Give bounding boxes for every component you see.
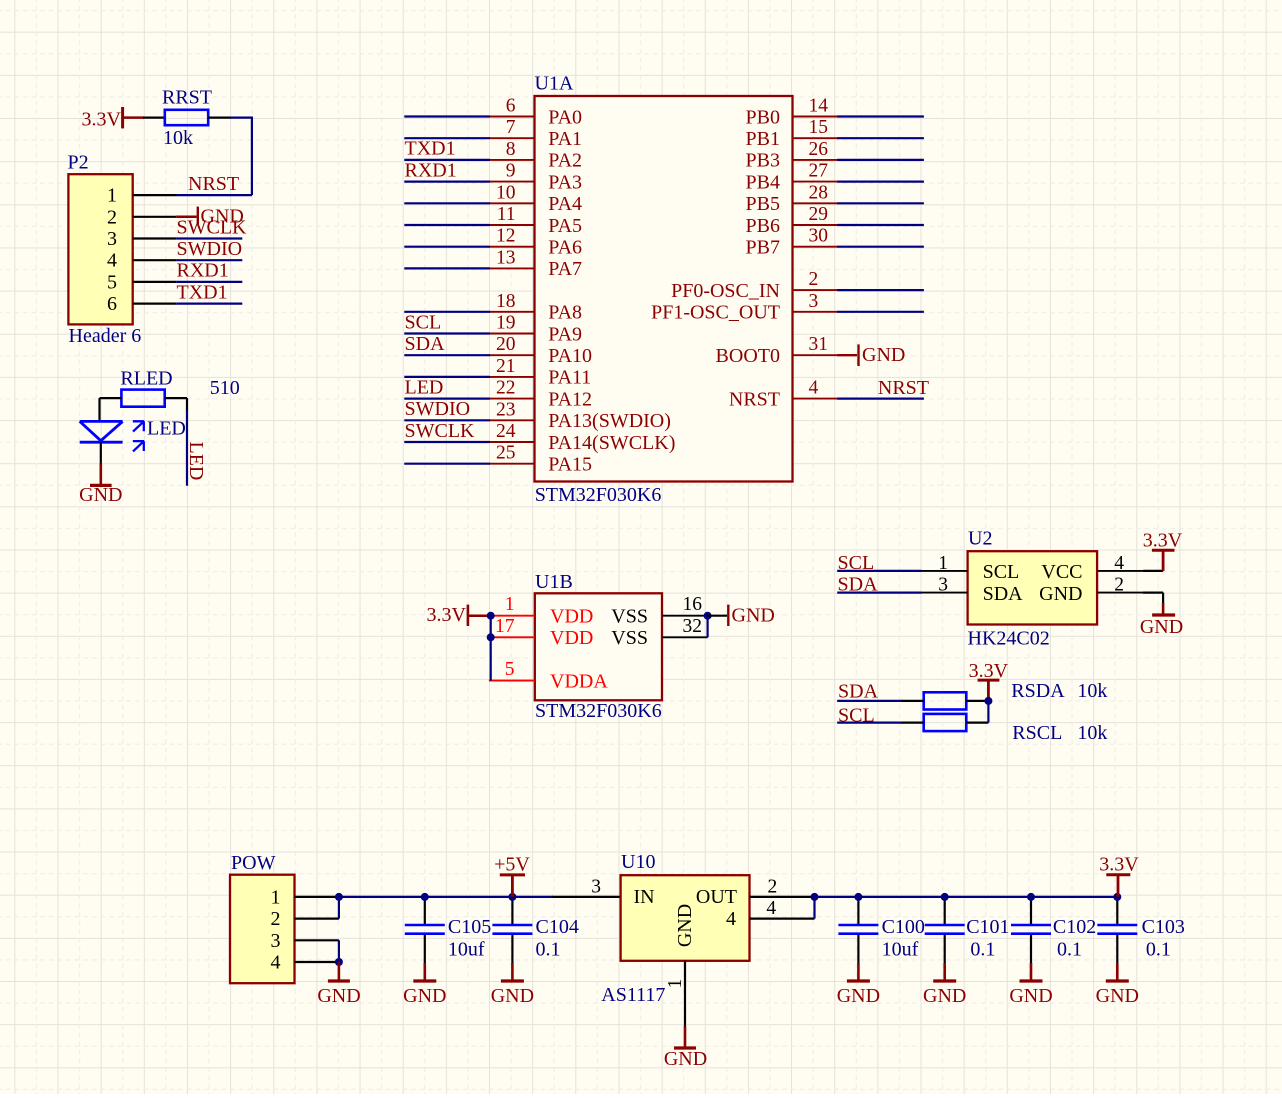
svg-text:SCL: SCL: [983, 561, 1020, 583]
U1A pin 20 PA10: [489, 334, 592, 367]
svg-text:PA11: PA11: [548, 367, 591, 389]
wire 3.3V to RRST: [143, 116, 165, 118]
junction at C105: [421, 893, 429, 901]
svg-text:17: 17: [495, 616, 515, 637]
svg-text:VCC: VCC: [1041, 561, 1082, 583]
svg-text:510: 510: [210, 377, 240, 399]
P2 pin 5 stub and wire RXD1: [133, 281, 243, 283]
svg-text:SWCLK: SWCLK: [405, 420, 476, 442]
U1A pin 30 PB7: [746, 226, 839, 259]
wire U2 GND down: [1143, 593, 1163, 604]
resistor RRST 10k: [162, 87, 212, 150]
svg-text:1: 1: [938, 553, 948, 574]
junction at POW pin 1: [335, 893, 343, 901]
svg-text:BOOT0: BOOT0: [716, 345, 780, 367]
svg-text:3: 3: [938, 575, 948, 596]
wire at U1A pin 23: [404, 419, 490, 421]
U1A pin 10 PA4: [489, 182, 582, 215]
capacitor C102 0.1: [1011, 897, 1096, 964]
svg-text:GND: GND: [1009, 985, 1052, 1007]
svg-text:3.3V: 3.3V: [82, 108, 122, 130]
svg-text:AS1117: AS1117: [601, 984, 665, 1006]
svg-text:PB5: PB5: [746, 193, 780, 215]
wire VSS 32 up to VSS 16: [706, 616, 708, 638]
svg-text:RSDA: RSDA: [1011, 680, 1065, 702]
svg-text:28: 28: [809, 182, 829, 203]
ground GND below U10: [664, 1026, 707, 1070]
svg-text:1: 1: [505, 594, 515, 615]
svg-text:3.3V: 3.3V: [1099, 854, 1139, 876]
svg-text:20: 20: [496, 334, 516, 355]
svg-text:PB4: PB4: [746, 171, 780, 193]
svg-text:4: 4: [766, 898, 776, 919]
svg-text:PB7: PB7: [746, 237, 780, 259]
svg-text:31: 31: [809, 334, 829, 355]
capacitor C105 10uf: [405, 897, 491, 964]
POW pin 4 stub: [295, 961, 339, 963]
svg-text:PA6: PA6: [548, 237, 582, 259]
svg-text:SCL: SCL: [838, 552, 875, 574]
svg-text:2: 2: [107, 206, 117, 228]
svg-text:0.1: 0.1: [1146, 939, 1171, 961]
P2 pin 6 stub and wire TXD1: [133, 303, 243, 305]
svg-text:4: 4: [809, 378, 819, 399]
U1A pin 15 PB1: [746, 117, 839, 150]
svg-text:GND: GND: [403, 985, 446, 1007]
U2 pin 4 VCC: [1041, 553, 1143, 583]
svg-text:2: 2: [809, 269, 819, 290]
wire at U1A pin 20: [404, 354, 490, 356]
svg-text:0.1: 0.1: [1057, 939, 1082, 961]
svg-text:4: 4: [107, 250, 117, 272]
svg-text:30: 30: [809, 226, 829, 247]
U1B pin 5 VDDA: [489, 659, 608, 692]
capacitor C101 0.1: [925, 897, 1010, 964]
U1A pin 27 PB4: [746, 161, 839, 194]
junction at VDD pin 1: [487, 612, 495, 620]
U1B pin 1 VDD: [489, 594, 593, 627]
svg-text:3.3V: 3.3V: [427, 604, 467, 626]
svg-text:PA14(SWCLK): PA14(SWCLK): [548, 432, 675, 454]
U1A pin 23 PA13(SWDIO): [489, 399, 671, 432]
svg-text:RRST: RRST: [162, 87, 212, 109]
P2 pin 4 stub and wire SWDIO: [133, 259, 243, 261]
svg-text:1: 1: [107, 185, 117, 207]
svg-text:12: 12: [496, 226, 516, 247]
U10 pin 2 OUT stub: [750, 876, 816, 897]
wire at U1A pin 10: [404, 202, 490, 204]
U1B pin 32 VSS: [611, 616, 707, 649]
wire 3.3V vertical to VDDA: [490, 616, 492, 681]
svg-text:PA0: PA0: [548, 106, 582, 128]
wire at U1A pin 26: [837, 159, 924, 161]
wire SCL to RSCL: [837, 721, 924, 723]
U1A pin 14 PB0: [746, 96, 839, 129]
POW pin 2 stub and wire up: [295, 897, 339, 919]
junction at VSS pin 16: [704, 612, 712, 620]
svg-text:PA3: PA3: [548, 171, 582, 193]
svg-text:IN: IN: [634, 886, 655, 908]
ground GND below C101: [923, 963, 966, 1007]
U10 pin 4 stub and wire up: [750, 897, 815, 919]
ground GND (U2): [1140, 603, 1183, 638]
svg-text:3: 3: [271, 930, 281, 952]
U1A pin 18 PA8: [489, 291, 582, 324]
svg-text:8: 8: [506, 139, 516, 160]
ground GND below C104: [491, 963, 534, 1007]
svg-text:11: 11: [497, 204, 516, 225]
svg-text:10uf: 10uf: [882, 939, 919, 961]
junction at C104: [508, 893, 516, 901]
svg-text:GND: GND: [664, 1048, 707, 1070]
wire RSDA right to 3.3V: [966, 700, 988, 702]
svg-text:PA12: PA12: [548, 388, 592, 410]
wire RSCL right up to 3.3V: [966, 701, 988, 723]
power port 3.3V (top left): [82, 107, 144, 130]
U1B pin 17 VDD: [489, 616, 593, 649]
junction at C100: [854, 893, 862, 901]
svg-text:1: 1: [271, 887, 281, 909]
wire at U1A pin 4: [837, 398, 924, 400]
svg-text:U10: U10: [621, 851, 655, 873]
svg-text:GND: GND: [837, 985, 880, 1007]
wire +5V net POW to U10: [339, 896, 621, 898]
P2 pin 3 stub and wire SWCLK: [133, 237, 243, 239]
wire at U1A pin 13: [404, 267, 490, 269]
svg-text:PA2: PA2: [548, 150, 582, 172]
U1A pin 6 PA0: [489, 96, 582, 129]
svg-text:GND: GND: [674, 904, 696, 947]
ground port GND (U1B right): [708, 604, 775, 626]
U1A pin 2 PF0-OSC_IN: [671, 269, 838, 302]
wire at U1A pin 21: [404, 376, 490, 378]
power port 3.3V (output): [1099, 854, 1139, 897]
svg-text:PB6: PB6: [746, 215, 780, 237]
svg-text:TXD1: TXD1: [405, 138, 456, 160]
svg-text:PF0-OSC_IN: PF0-OSC_IN: [671, 280, 780, 302]
ground port GND at BOOT0: [837, 344, 905, 366]
wire at U1A pin 18: [404, 311, 490, 313]
U1A pin 8 PA2: [489, 139, 582, 172]
svg-text:1: 1: [665, 979, 686, 989]
ground GND below LED: [79, 463, 122, 505]
IC U1A STM32F030K6 body: [535, 72, 793, 506]
junction at C103: [1113, 893, 1121, 901]
svg-text:3: 3: [591, 876, 601, 897]
svg-text:27: 27: [809, 161, 829, 182]
wire at U1A pin 14: [837, 115, 924, 117]
svg-text:LED: LED: [185, 442, 207, 481]
svg-text:14: 14: [809, 96, 829, 117]
wire at U1A pin 29: [837, 224, 924, 226]
U1A pin 29 PB6: [746, 204, 839, 237]
wire SCL to U2: [837, 570, 921, 572]
U1A pin 13 PA7: [489, 247, 582, 280]
svg-text:PB0: PB0: [746, 106, 780, 128]
ground GND below C100: [837, 963, 880, 1007]
ground GND at POW pin 4: [317, 962, 360, 1007]
svg-text:GND: GND: [491, 985, 534, 1007]
U1A pin 9 PA3: [489, 161, 582, 194]
svg-text:SCL: SCL: [405, 311, 442, 333]
svg-text:RXD1: RXD1: [177, 260, 229, 282]
svg-text:PB3: PB3: [746, 150, 780, 172]
svg-text:C103: C103: [1142, 916, 1185, 938]
svg-text:SDA: SDA: [983, 583, 1024, 605]
power port 3.3V (U2): [1143, 529, 1183, 571]
svg-text:PF1-OSC_OUT: PF1-OSC_OUT: [651, 302, 780, 324]
junction at VDD pin 17: [487, 633, 495, 641]
IC U2 HK24C02 body: [968, 528, 1098, 650]
svg-text:VDDA: VDDA: [550, 670, 608, 692]
svg-text:23: 23: [496, 399, 516, 420]
IC U10 AS1117 body: [621, 851, 750, 961]
capacitor C103 0.1: [1097, 897, 1185, 964]
P2 pin 1 stub: [133, 194, 177, 196]
wire at U1A pin 2: [837, 289, 924, 291]
svg-text:RSCL: RSCL: [1012, 722, 1062, 744]
svg-text:NRST: NRST: [729, 388, 780, 410]
IC U1B STM32F030K6 body: [535, 571, 662, 722]
svg-text:21: 21: [496, 356, 516, 377]
wire at U1A pin 8: [404, 159, 490, 161]
svg-text:GND: GND: [317, 985, 360, 1007]
junction at C101: [941, 893, 949, 901]
wire at U1A pin 25: [404, 463, 490, 465]
svg-text:GND: GND: [862, 344, 905, 366]
svg-text:C102: C102: [1053, 916, 1096, 938]
svg-text:4: 4: [1114, 553, 1124, 574]
svg-text:PA5: PA5: [548, 215, 582, 237]
svg-text:22: 22: [496, 378, 516, 399]
svg-text:16: 16: [683, 594, 703, 615]
svg-text:3: 3: [107, 228, 117, 250]
svg-text:10uf: 10uf: [448, 939, 485, 961]
svg-text:LED: LED: [405, 376, 444, 398]
wire at U1A pin 15: [837, 137, 924, 139]
svg-text:PA4: PA4: [548, 193, 582, 215]
svg-text:OUT: OUT: [696, 886, 737, 908]
svg-text:PA10: PA10: [548, 345, 592, 367]
U1A pin 31 BOOT0: [716, 334, 839, 367]
svg-text:RLED: RLED: [120, 367, 172, 389]
svg-text:7: 7: [506, 117, 516, 138]
svg-text:PB1: PB1: [746, 128, 780, 150]
wire NRST net from RRST to P2 pin 1: [177, 117, 252, 196]
wire at U1A pin 28: [837, 202, 924, 204]
svg-text:Header 6: Header 6: [69, 325, 142, 347]
U1A pin 4 NRST: [729, 378, 838, 411]
junction at U10 OUT: [811, 893, 819, 901]
svg-text:SDA: SDA: [405, 333, 446, 355]
resistor RLED 510: [120, 367, 239, 406]
svg-text:SDA: SDA: [838, 574, 879, 596]
POW pin 1 stub: [295, 896, 341, 898]
U2 pin 2 GND: [1039, 575, 1143, 605]
U1B pin 16 VSS: [611, 594, 707, 627]
svg-text:P2: P2: [68, 152, 89, 174]
svg-text:5: 5: [505, 659, 515, 680]
svg-text:SWCLK: SWCLK: [177, 216, 248, 238]
svg-text:U1B: U1B: [535, 571, 573, 593]
U1A pin 25 PA15: [489, 443, 592, 476]
svg-text:SWDIO: SWDIO: [177, 238, 243, 260]
svg-text:5: 5: [107, 271, 117, 293]
svg-text:10k: 10k: [1077, 680, 1107, 702]
U1A pin 21 PA11: [489, 356, 591, 389]
junction at pullup 3.3V: [984, 697, 992, 705]
svg-text:PA9: PA9: [548, 323, 582, 345]
wire at U1A pin 12: [404, 246, 490, 248]
power port 3.3V (U1B): [427, 604, 490, 626]
svg-text:26: 26: [809, 139, 829, 160]
svg-text:U1A: U1A: [535, 72, 574, 94]
svg-text:15: 15: [809, 117, 829, 138]
svg-text:6: 6: [506, 96, 516, 117]
U2 pin 3 SDA: [922, 575, 1024, 605]
svg-text:VDD: VDD: [550, 606, 593, 628]
wire RLED left to LED anode: [100, 398, 122, 421]
svg-text:C100: C100: [882, 916, 925, 938]
junction at POW pin 4: [335, 958, 343, 966]
svg-text:HK24C02: HK24C02: [968, 628, 1050, 650]
svg-text:LED: LED: [147, 418, 186, 440]
wire at U1A pin 7: [404, 137, 490, 139]
U1A pin 12 PA6: [489, 226, 582, 259]
svg-text:VSS: VSS: [611, 627, 648, 649]
U1A pin 22 PA12: [489, 378, 592, 411]
wire SDA to RSDA: [837, 700, 924, 702]
power port +5V: [494, 853, 530, 897]
U1A pin 19 PA9: [489, 313, 582, 346]
svg-text:VDD: VDD: [550, 627, 593, 649]
resistor RSCL 10k: [924, 714, 1108, 744]
svg-text:4: 4: [271, 952, 281, 974]
svg-text:SDA: SDA: [838, 681, 879, 703]
junction at C102: [1027, 893, 1035, 901]
svg-text:2: 2: [768, 876, 778, 897]
svg-text:2: 2: [271, 908, 281, 930]
svg-text:0.1: 0.1: [970, 939, 995, 961]
U1A pin 24 PA14(SWCLK): [489, 421, 675, 454]
svg-text:24: 24: [496, 421, 516, 442]
svg-text:PA13(SWDIO): PA13(SWDIO): [548, 410, 671, 432]
svg-text:VSS: VSS: [611, 606, 648, 628]
U10 pin 1 GND stub down: [665, 961, 686, 1027]
ground port GND at P2 pin 2: [176, 205, 244, 227]
svg-text:25: 25: [496, 443, 516, 464]
svg-text:32: 32: [683, 616, 703, 637]
U1A pin 26 PB3: [746, 139, 839, 172]
svg-text:C104: C104: [536, 916, 579, 938]
ground GND below C102: [1009, 963, 1052, 1007]
svg-text:SWDIO: SWDIO: [405, 398, 471, 420]
svg-text:GND: GND: [79, 484, 122, 506]
svg-text:10k: 10k: [163, 127, 193, 149]
svg-text:PA15: PA15: [548, 454, 592, 476]
U1A pin 3 PF1-OSC_OUT: [651, 291, 838, 324]
wire at U1A pin 30: [837, 246, 924, 248]
wire at U1A pin 24: [404, 441, 490, 443]
U2 pin 1 SCL: [922, 553, 1020, 583]
resistor RSDA 10k: [924, 680, 1108, 710]
POW pin 3 stub and wire down: [295, 940, 339, 962]
svg-text:GND: GND: [1096, 985, 1139, 1007]
capacitor C104 0.1: [492, 897, 578, 964]
svg-text:10k: 10k: [1077, 722, 1107, 744]
wire 3.3V net U10 to caps: [815, 896, 1118, 898]
svg-text:9: 9: [506, 161, 516, 182]
wire at U1A pin 9: [404, 181, 490, 183]
wire at U1A pin 19: [404, 332, 490, 334]
wire LED cathode down: [100, 442, 102, 464]
svg-text:GND: GND: [732, 604, 775, 626]
svg-text:0.1: 0.1: [536, 939, 561, 961]
LED diode LED: [80, 418, 186, 452]
wire RLED right to LED net vertical: [165, 398, 187, 486]
power port 3.3V (pullups): [969, 660, 1009, 701]
svg-text:PA7: PA7: [548, 258, 582, 280]
svg-text:PA1: PA1: [548, 128, 582, 150]
svg-text:3.3V: 3.3V: [1143, 529, 1183, 551]
ground GND below C103: [1096, 963, 1139, 1007]
svg-text:U2: U2: [968, 528, 992, 550]
svg-text:STM32F030K6: STM32F030K6: [535, 484, 662, 506]
svg-text:C105: C105: [448, 916, 491, 938]
wire at U1A pin 11: [404, 224, 490, 226]
svg-text:2: 2: [1114, 575, 1124, 596]
svg-text:SCL: SCL: [838, 705, 875, 727]
wire U2 VCC to 3.3V: [1143, 570, 1163, 572]
svg-text:10: 10: [496, 182, 516, 203]
U1A pin 11 PA5: [489, 204, 582, 237]
U1A pin 7 PA1: [489, 117, 582, 150]
wire at U1A pin 3: [837, 311, 924, 313]
wire at U1A pin 27: [837, 181, 924, 183]
capacitor C100 10uf: [838, 897, 925, 964]
wire at U1A pin 22: [404, 398, 490, 400]
svg-text:GND: GND: [1039, 583, 1082, 605]
svg-text:13: 13: [496, 247, 516, 268]
svg-text:NRST: NRST: [878, 377, 929, 399]
ground GND below C105: [403, 963, 446, 1007]
svg-text:3: 3: [809, 291, 819, 312]
U1A pin 28 PB5: [746, 182, 839, 215]
svg-text:3.3V: 3.3V: [969, 660, 1009, 682]
svg-text:GND: GND: [923, 985, 966, 1007]
svg-text:29: 29: [809, 204, 829, 225]
svg-text:NRST: NRST: [188, 173, 239, 195]
svg-text:TXD1: TXD1: [177, 281, 228, 303]
svg-text:POW: POW: [231, 852, 276, 874]
svg-text:RXD1: RXD1: [405, 159, 457, 181]
svg-text:PA8: PA8: [548, 302, 582, 324]
svg-text:+5V: +5V: [494, 853, 530, 875]
connector P2 Header 6: [68, 152, 142, 348]
svg-text:4: 4: [726, 908, 736, 930]
connector POW header body: [230, 852, 295, 983]
svg-text:C101: C101: [966, 916, 1009, 938]
svg-text:19: 19: [496, 313, 516, 334]
P2 pin 2 stub: [133, 216, 176, 218]
wire SDA to U2: [837, 591, 921, 593]
svg-text:18: 18: [496, 291, 516, 312]
svg-text:STM32F030K6: STM32F030K6: [535, 700, 662, 722]
svg-text:GND: GND: [1140, 616, 1183, 638]
wire at U1A pin 6: [404, 115, 490, 117]
svg-text:6: 6: [107, 293, 117, 315]
